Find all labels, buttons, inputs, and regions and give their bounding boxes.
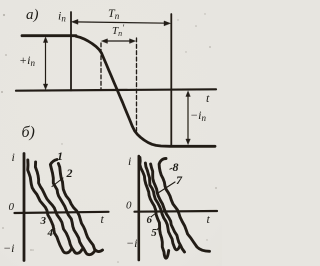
solid line at transition end — [170, 14, 172, 145]
svg-text:1: 1 — [57, 149, 63, 163]
dashed line at T_p' end — [136, 38, 138, 131]
svg-text:5: 5 — [151, 227, 157, 239]
horizontal axis (left graph) — [15, 212, 109, 213]
time baseline of panel a — [16, 89, 216, 90]
dashed line at transition start — [100, 43, 102, 90]
svg-text:3: 3 — [40, 215, 47, 227]
curve 1 of left graph — [28, 160, 71, 253]
curve 7 of right graph — [151, 164, 185, 252]
vertical axis of panel a — [70, 12, 72, 91]
curve 6 of right graph with bottom hook — [145, 163, 180, 250]
svg-text:−i: −i — [126, 236, 137, 250]
svg-text:−i: −i — [3, 241, 14, 255]
svg-text:4: 4 — [47, 227, 54, 239]
-i_p dimension arrow — [187, 94, 189, 143]
curve 8 of right graph with top hook and flat tail — [159, 159, 209, 252]
svg-text:б): б) — [22, 124, 35, 141]
T_p' dimension arrow — [104, 40, 133, 42]
curve 2 of left graph — [35, 162, 82, 253]
paper noise specks — [1, 13, 217, 263]
main S-curve — [76, 36, 215, 146]
svg-text:8: 8 — [173, 160, 179, 174]
curve 4 of left graph — [58, 164, 102, 252]
+i_p dimension arrow — [45, 40, 47, 88]
svg-text:i: i — [128, 154, 131, 168]
curve 3 of left graph with top hook to label 1 — [50, 160, 95, 255]
top level line — [22, 34, 76, 37]
svg-text:0: 0 — [126, 200, 132, 212]
svg-text:0: 0 — [9, 201, 15, 213]
T_p dimension arrow — [74, 22, 168, 23]
svg-text:7: 7 — [176, 173, 183, 187]
horizontal axis (right graph) — [135, 210, 218, 213]
vertical axis (left graph) — [23, 154, 26, 261]
svg-text:а): а) — [26, 7, 39, 23]
curve 5 of right graph with bottom hook — [140, 158, 169, 259]
svg-text:2: 2 — [66, 166, 73, 180]
vertical axis (right graph) — [138, 156, 141, 260]
svg-text:i: i — [12, 150, 15, 164]
